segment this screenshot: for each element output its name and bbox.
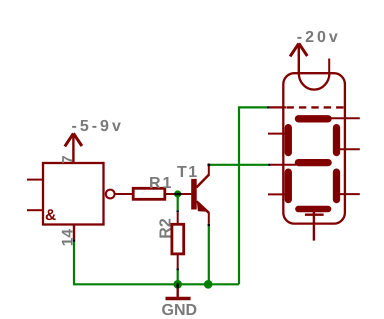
- resistor R2: [172, 212, 184, 268]
- resistor R1: [133, 188, 191, 199]
- tube grid dashed mesh: [287, 106, 345, 108]
- wire (base junction down to R2): [177, 196, 179, 210]
- svg-text:T1: T1: [177, 164, 199, 181]
- segment G: [298, 159, 328, 166]
- tube right pin B: [334, 148, 360, 150]
- wire (R2 bottom to ground rail): [177, 270, 179, 284]
- tube grid pin (left, to dashed mesh): [269, 106, 286, 108]
- joint pin14/wire: [73, 239, 75, 241]
- joint wire/R2 top: [177, 210, 179, 212]
- joint R2 bottom/wire: [177, 268, 179, 270]
- svg-text:R1: R1: [149, 175, 173, 192]
- wire (T1 emitter down to ground rail): [208, 226, 210, 284]
- gate input pin 2: [27, 209, 43, 211]
- node base junction dot: [174, 190, 181, 197]
- ground: [166, 289, 191, 299]
- gate power pin 7 (top) with supply arrow -5-9v: [72, 134, 74, 164]
- tube right pin A: [331, 117, 360, 119]
- tube top right pin stub: [328, 59, 330, 74]
- segment D pin crossbar: [305, 213, 324, 215]
- gate output inverter bubble: [106, 190, 115, 199]
- tube right pin C: [334, 193, 360, 195]
- node junction dot R2/GND on rail: [173, 280, 182, 289]
- segment A: [298, 115, 328, 122]
- segment D: [298, 206, 328, 213]
- segment F: [285, 128, 292, 153]
- svg-text:R2: R2: [157, 218, 174, 239]
- logic gate IC1 (7400 NAND): [43, 163, 104, 225]
- tube left pin E: [268, 193, 290, 195]
- svg-text:-5-9v: -5-9v: [72, 118, 124, 135]
- wire (GND rail: gate pin 14 down, across bottom): [74, 241, 239, 284]
- joint wire/segment G pin: [268, 164, 270, 166]
- segment B: [333, 128, 340, 153]
- svg-text:14: 14: [60, 229, 77, 247]
- tube left pin F: [268, 133, 290, 135]
- tube anode pin with supply arrow -20v: [298, 44, 300, 74]
- tube bottom pin stem: [313, 209, 315, 241]
- segment C: [333, 172, 340, 200]
- svg-text:GND: GND: [162, 302, 198, 319]
- tube top notch arc: [299, 73, 330, 89]
- tube display envelope: [283, 73, 345, 223]
- gate input pin 1: [27, 179, 43, 181]
- gate power pin 14 (bottom): [73, 225, 75, 240]
- node junction dot emitter on rail: [204, 280, 213, 289]
- transistor T1: [191, 164, 209, 223]
- joint wire/grid pin: [267, 106, 269, 108]
- svg-text:-20v: -20v: [297, 29, 341, 46]
- tube left pin G: [270, 164, 296, 166]
- joint collector/wire: [208, 164, 211, 167]
- wire (T1 collector to tube segment pin): [210, 164, 268, 166]
- joint emitter/wire: [208, 224, 210, 226]
- wire (bottom rail up right side to tube grid pin): [239, 107, 267, 284]
- svg-text:&: &: [45, 207, 56, 224]
- segment E: [285, 172, 292, 200]
- svg-text:7: 7: [59, 155, 76, 163]
- gate output pin wire to R1: [115, 193, 134, 195]
